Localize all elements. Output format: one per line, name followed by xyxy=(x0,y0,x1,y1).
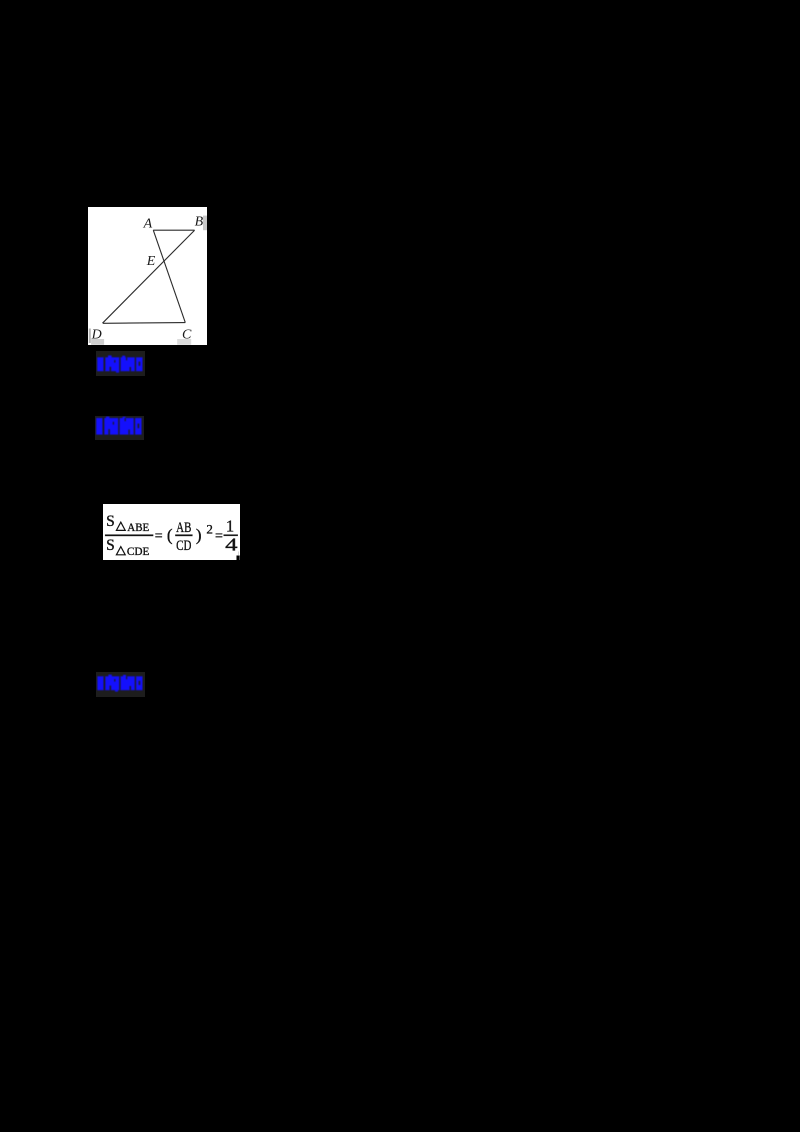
scan artifact: gray strip below D xyxy=(91,339,104,345)
svg-text:2: 2 xyxy=(207,521,214,536)
wire DB (diagonal) xyxy=(102,230,194,323)
denominator triangle xyxy=(117,546,126,554)
stroke bumps xyxy=(108,356,112,358)
gap lines xyxy=(103,357,105,371)
svg-text:B: B xyxy=(194,215,203,230)
svg-text:CDE: CDE xyxy=(127,544,149,558)
faint gray streak near right edge xyxy=(237,551,240,555)
scan artifact: thin gray strip left edge near D xyxy=(88,328,90,342)
blue band xyxy=(96,418,141,435)
formula panel (white box with fraction equation) xyxy=(103,504,240,560)
svg-text:CD: CD xyxy=(176,537,191,553)
svg-text:E: E xyxy=(145,254,155,269)
svg-text:C: C xyxy=(182,327,192,342)
label block 1: blue highlighted tag xyxy=(96,351,145,376)
fraction bar 1 xyxy=(105,534,153,535)
numerator triangle xyxy=(117,522,126,530)
scan artifact: gray strip below C xyxy=(177,339,191,345)
texture notches xyxy=(109,429,110,434)
svg-text:4: 4 xyxy=(225,534,238,554)
svg-text:D: D xyxy=(90,327,101,342)
stroke bumps xyxy=(106,416,109,418)
stroke bumps xyxy=(108,674,111,676)
label block 2: blue highlighted tag xyxy=(95,416,144,441)
diagram panel (white box with geometry figure) xyxy=(88,207,207,345)
svg-text:ABE: ABE xyxy=(128,519,150,533)
svg-text:A: A xyxy=(142,216,152,231)
svg-text:S: S xyxy=(106,512,115,529)
svg-text:(: ( xyxy=(167,525,173,544)
svg-text:S: S xyxy=(106,537,115,554)
texture notches xyxy=(109,367,110,371)
blue band xyxy=(97,357,142,371)
svg-text:AB: AB xyxy=(176,520,191,536)
blue band xyxy=(97,676,142,690)
scan artifact: gray square right of B xyxy=(203,215,207,230)
svg-text:1: 1 xyxy=(226,516,234,535)
fraction bar 2 xyxy=(176,534,193,535)
wire AB (top segment) xyxy=(153,229,194,231)
gap lines xyxy=(103,418,105,435)
gap lines xyxy=(103,676,105,690)
svg-text:=: = xyxy=(215,529,223,544)
texture notches xyxy=(109,685,111,690)
svg-text:=: = xyxy=(155,529,163,544)
wire DC (bottom segment) xyxy=(102,321,184,324)
svg-text:): ) xyxy=(196,525,202,544)
label block 3: blue highlighted tag xyxy=(96,672,145,697)
dark corner cut bottom-right xyxy=(237,555,240,560)
wire AC (diagonal) xyxy=(153,230,185,322)
fraction bar 3 xyxy=(224,534,238,535)
